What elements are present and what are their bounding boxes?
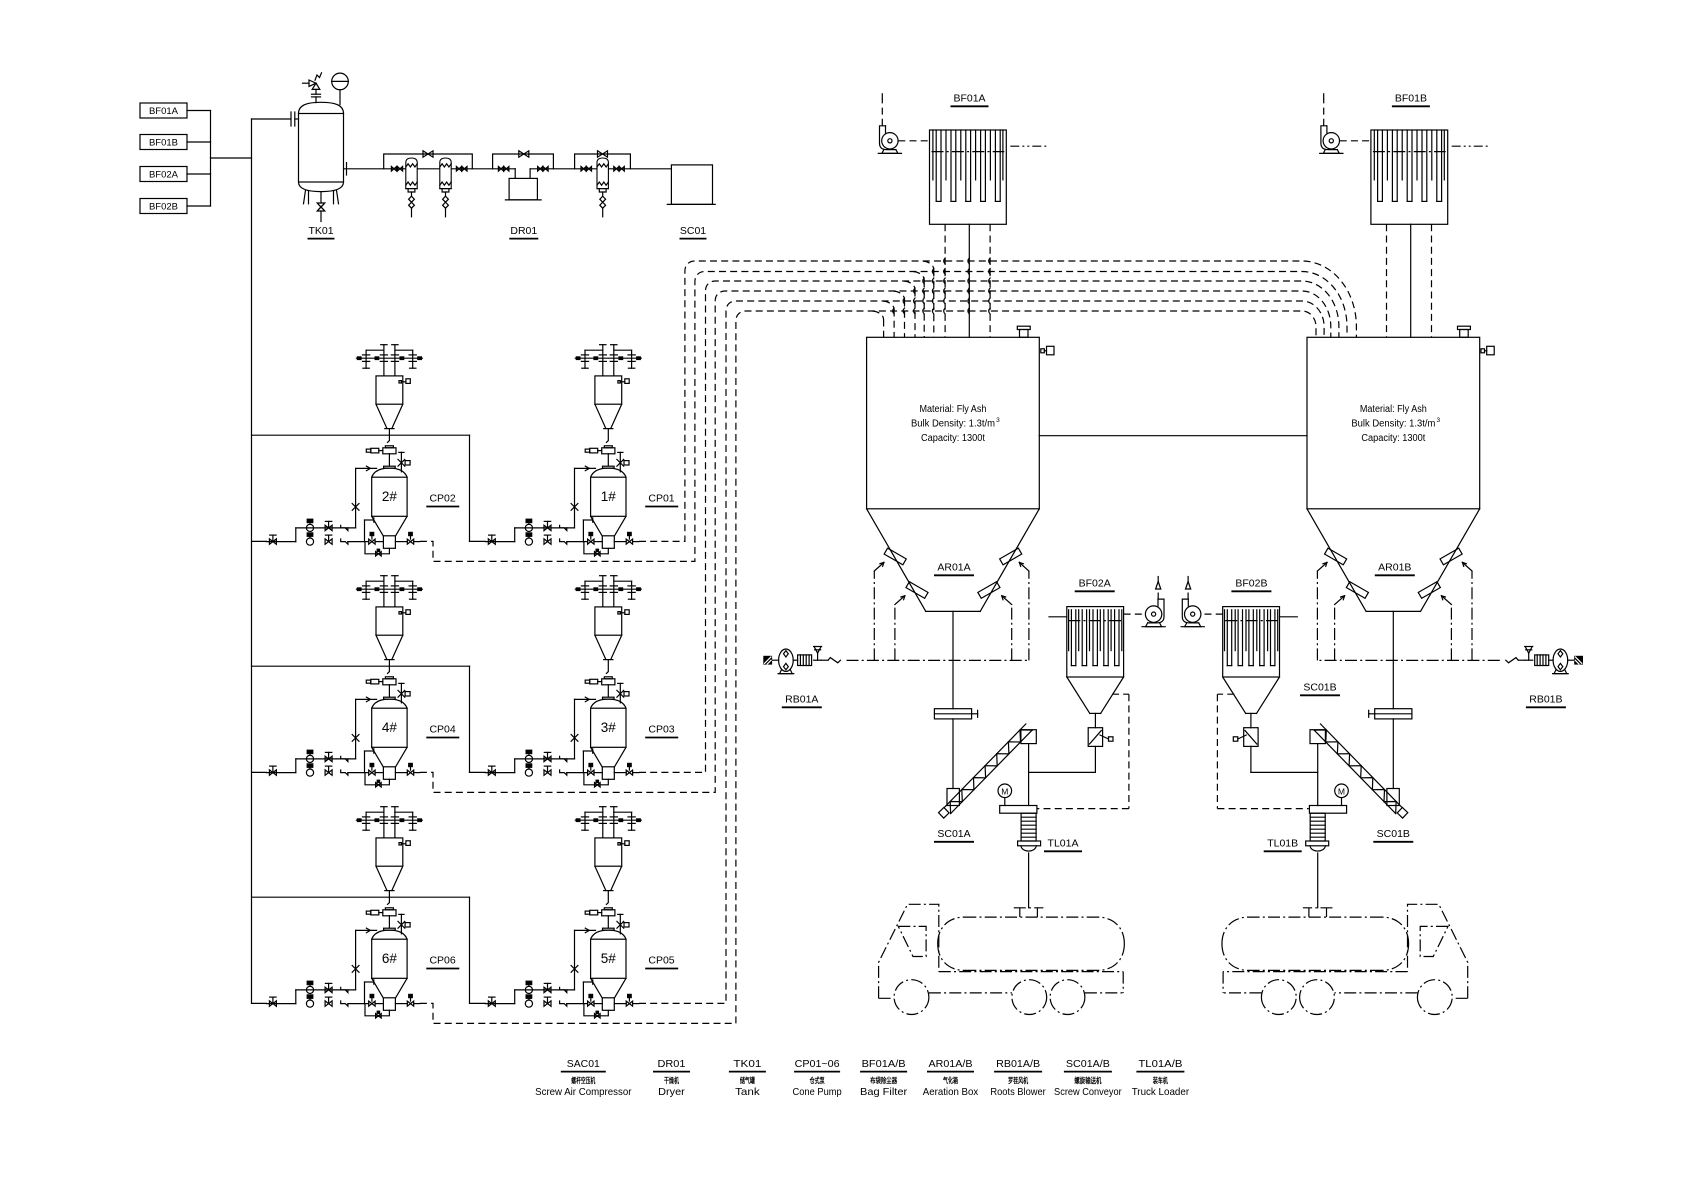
- svg-text:TL01A/B: TL01A/B: [1138, 1058, 1182, 1070]
- exhaust fan at BF02A: [1124, 577, 1166, 627]
- air supply line row CP04/CP03: [252, 666, 486, 772]
- svg-text:TK01: TK01: [308, 225, 333, 237]
- BF02A inlet stub: [1049, 616, 1067, 618]
- svg-text:CP02: CP02: [429, 493, 455, 505]
- svg-text:罗茬风机: 罗茬风机: [1008, 1075, 1028, 1085]
- cone pump CP04: [266, 576, 422, 787]
- svg-text:储气罐: 储气罐: [740, 1075, 755, 1085]
- svg-text:AR01A/B: AR01A/B: [929, 1058, 973, 1070]
- svg-text:布袋除尘器: 布袋除尘器: [870, 1075, 897, 1085]
- branch into silo A (5): [883, 301, 894, 337]
- roots blower RB01B: [1506, 647, 1583, 674]
- svg-text:AR01B: AR01B: [1378, 562, 1411, 574]
- svg-text:BF01B: BF01B: [149, 138, 178, 149]
- svg-text:3: 3: [1437, 417, 1441, 424]
- svg-text:SAC01: SAC01: [567, 1058, 600, 1070]
- svg-text:Screw Air Compressor: Screw Air Compressor: [535, 1086, 632, 1098]
- BF01B dust return line: [1431, 224, 1433, 337]
- branch into silo A (1): [923, 261, 934, 337]
- svg-text:RB01A/B: RB01A/B: [996, 1058, 1040, 1070]
- truck loader TL01A: [1000, 806, 1041, 908]
- svg-text:6#: 6#: [382, 951, 398, 966]
- svg-text:3#: 3#: [601, 720, 617, 735]
- exhaust fan at BF02B: [1181, 577, 1223, 627]
- cone pump CP02: [266, 345, 422, 556]
- source boxes BF01A/BF01B/BF02A/BF02B: [140, 103, 252, 214]
- svg-text:BF02B: BF02B: [149, 202, 178, 213]
- legend: [535, 1058, 1189, 1098]
- svg-text:BF01A/B: BF01A/B: [862, 1058, 906, 1070]
- svg-text:Tank: Tank: [735, 1086, 760, 1098]
- dryer outlet valves: [538, 167, 549, 172]
- isolation valves downstream of filter F2: [456, 167, 467, 172]
- svg-text:SC01A/B: SC01A/B: [1066, 1058, 1110, 1070]
- roots blower RB01A: [763, 647, 840, 674]
- bypass loop 3 with valve: [575, 151, 631, 169]
- tanker truck A: [879, 904, 1125, 1014]
- BF02B rotary flap valve: [1233, 713, 1317, 772]
- branch into silo A (2): [913, 272, 924, 338]
- bypass loop 2 over dryer DR01: [493, 151, 554, 169]
- svg-text:3: 3: [996, 417, 1000, 424]
- svg-text:CP01~06: CP01~06: [795, 1058, 840, 1070]
- svg-text:Bulk Density: 1.3t/m: Bulk Density: 1.3t/m: [911, 419, 995, 430]
- svg-text:M: M: [1001, 786, 1008, 796]
- svg-text:BF02A: BF02A: [1079, 578, 1111, 590]
- svg-text:SC01B: SC01B: [1377, 828, 1410, 840]
- motor M of truck loader TL01B: [1335, 784, 1349, 806]
- silo capacity text: [1351, 404, 1440, 444]
- main air line TK01 to SC01: [344, 163, 672, 175]
- aeration pads AR01B on silo cone: [1325, 548, 1463, 598]
- svg-text:Capacity: 1300t: Capacity: 1300t: [1361, 433, 1425, 444]
- silo A discharge line and slide valve: [934, 611, 977, 788]
- screw air compressor SC01 box: [667, 165, 715, 205]
- bypass loop 1 with valve: [384, 151, 473, 169]
- svg-text:Dryer: Dryer: [658, 1086, 685, 1098]
- tanker truck B: [1222, 904, 1468, 1014]
- svg-text:4#: 4#: [382, 720, 398, 735]
- air supply line row CP02/CP01: [252, 435, 486, 541]
- truck loader TL01B: [1306, 806, 1347, 908]
- BF01A dust return line: [989, 224, 990, 337]
- motor M of truck loader TL01A: [998, 784, 1012, 806]
- svg-text:TK01: TK01: [733, 1058, 761, 1070]
- svg-text:Bulk Density: 1.3t/m: Bulk Density: 1.3t/m: [1351, 419, 1435, 430]
- screw conveyor SC01B: [1310, 724, 1408, 818]
- conveyor discharge to truck loader TL01A: [1028, 744, 1030, 806]
- bag filter BF02B: [1223, 607, 1280, 714]
- svg-text:Bag Filter: Bag Filter: [860, 1086, 908, 1098]
- cone pump CP06: [266, 807, 422, 1018]
- silo level indicator: [1041, 346, 1054, 355]
- isolation valves upstream of filter F3: [581, 167, 592, 172]
- BF02B vent duct: [1217, 694, 1308, 808]
- silo A body: [867, 337, 1040, 611]
- svg-text:DR01: DR01: [658, 1058, 686, 1070]
- screw conveyor SC01A: [939, 724, 1037, 818]
- side A equipment group: [763, 337, 1165, 1014]
- svg-text:Truck Loader: Truck Loader: [1132, 1086, 1190, 1098]
- svg-text:BF02B: BF02B: [1235, 578, 1267, 590]
- svg-text:CP06: CP06: [429, 955, 455, 967]
- BF02A vent duct: [1038, 694, 1129, 808]
- conveying line from cone pump to silos (6): [420, 311, 1316, 1023]
- svg-text:Screw Conveyor: Screw Conveyor: [1054, 1086, 1122, 1098]
- svg-text:仓式泵: 仓式泵: [809, 1075, 825, 1085]
- svg-text:装车机: 装车机: [1152, 1075, 1168, 1085]
- cone pump CP05: [485, 807, 641, 1018]
- silo B body: [1307, 337, 1480, 611]
- svg-text:2#: 2#: [382, 489, 398, 504]
- svg-text:Material: Fly Ash: Material: Fly Ash: [919, 404, 986, 415]
- aeration air piping AR01B: [1317, 562, 1499, 660]
- svg-text:RB01A: RB01A: [785, 694, 818, 706]
- side B equipment group (mirror): [1181, 337, 1583, 1014]
- svg-text:气化箱: 气化箱: [942, 1075, 958, 1085]
- svg-text:CP05: CP05: [648, 955, 674, 967]
- bag filter BF01A: [878, 94, 1046, 225]
- filter vessel F3: [597, 158, 608, 217]
- svg-text:M: M: [1338, 786, 1345, 796]
- filter vessel F2: [440, 158, 451, 217]
- isolation valves upstream of filter F1: [391, 167, 402, 172]
- bag filter BF02A: [1067, 607, 1124, 714]
- air header bus: [251, 119, 253, 1003]
- BF02B inlet stub: [1280, 616, 1298, 618]
- cone pump CP03: [485, 576, 641, 787]
- svg-text:BF01A: BF01A: [953, 93, 985, 105]
- tank TK01: [252, 73, 349, 222]
- conveying line from cone pump to silos (4): [420, 291, 1331, 792]
- cone pump CP01: [485, 345, 641, 556]
- svg-text:RB01B: RB01B: [1529, 694, 1562, 706]
- svg-text:SC01B: SC01B: [1303, 682, 1336, 694]
- svg-text:干燥机: 干燥机: [664, 1075, 679, 1085]
- svg-text:DR01: DR01: [510, 225, 537, 237]
- svg-text:螺杆空压机: 螺杆空压机: [571, 1075, 595, 1085]
- silo interconnecting line: [1039, 435, 1307, 437]
- svg-text:BF02A: BF02A: [149, 170, 179, 181]
- svg-text:Cone Pump: Cone Pump: [793, 1086, 842, 1098]
- aeration air piping AR01A: [847, 562, 1029, 660]
- svg-text:5#: 5#: [601, 951, 617, 966]
- silo capacity text: [911, 404, 1000, 444]
- BF01B dust return line: [1386, 224, 1388, 337]
- svg-text:SC01A: SC01A: [937, 828, 970, 840]
- branch into silo A (6): [873, 311, 884, 337]
- conveying line from cone pump to silos (5): [639, 301, 1324, 1003]
- silo manhole nozzle: [1458, 326, 1471, 337]
- svg-text:AR01A: AR01A: [937, 562, 970, 574]
- BF01A dust return line: [944, 224, 945, 337]
- svg-text:螺旋输送机: 螺旋输送机: [1074, 1075, 1101, 1085]
- branch into silo A (4): [894, 291, 905, 337]
- svg-text:CP03: CP03: [648, 724, 674, 736]
- BF02A rotary flap valve: [1029, 713, 1113, 772]
- svg-text:Material: Fly Ash: Material: Fly Ash: [1360, 404, 1427, 415]
- dryer inlet valves: [498, 167, 509, 172]
- silo manhole nozzle: [1017, 326, 1030, 337]
- svg-text:TL01B: TL01B: [1267, 838, 1298, 850]
- silo B discharge line and slide valve: [1369, 611, 1412, 788]
- silo level indicator: [1481, 346, 1494, 355]
- air supply line row CP06/CP05: [252, 897, 486, 1003]
- BF01B dust return line: [1410, 224, 1412, 337]
- svg-text:1#: 1#: [601, 489, 617, 504]
- svg-text:TL01A: TL01A: [1048, 838, 1079, 850]
- svg-text:Capacity: 1300t: Capacity: 1300t: [921, 433, 985, 444]
- svg-text:CP01: CP01: [648, 493, 674, 505]
- svg-text:CP04: CP04: [429, 724, 455, 736]
- svg-text:SC01: SC01: [680, 225, 706, 237]
- aeration pads AR01A on silo cone: [884, 548, 1022, 598]
- svg-text:Aeration Box: Aeration Box: [923, 1086, 979, 1098]
- BF01A dust return line: [968, 224, 969, 337]
- svg-text:BF01B: BF01B: [1395, 93, 1427, 105]
- branch into silo A (3): [904, 281, 915, 337]
- dryer DR01 body: [505, 169, 541, 200]
- svg-text:BF01A: BF01A: [149, 106, 179, 117]
- svg-text:Roots Blower: Roots Blower: [990, 1086, 1046, 1098]
- isolation valves downstream of filter F3: [614, 167, 625, 172]
- conveying line from cone pump to silos (1): [639, 261, 1356, 541]
- filter vessel F1: [406, 158, 417, 217]
- conveying line from cone pump to silos (3): [639, 281, 1339, 772]
- conveyor discharge to truck loader TL01B: [1317, 744, 1319, 806]
- conveying line from cone pump to silos (2): [420, 272, 1347, 562]
- bag filter BF01B: [1320, 94, 1488, 225]
